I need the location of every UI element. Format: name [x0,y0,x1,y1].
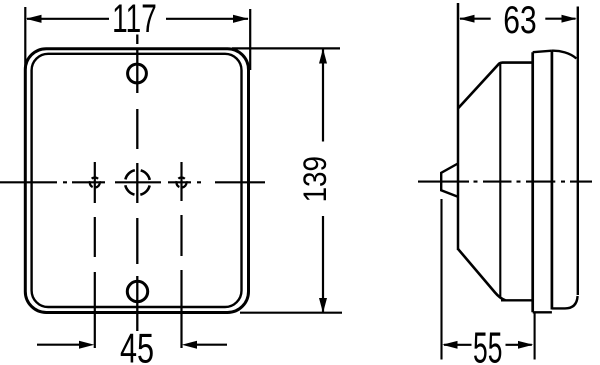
svg-text:45: 45 [120,325,154,365]
svg-text:63: 63 [503,0,536,42]
svg-text:117: 117 [112,0,157,41]
svg-text:139: 139 [298,156,333,202]
svg-text:55: 55 [473,322,502,365]
